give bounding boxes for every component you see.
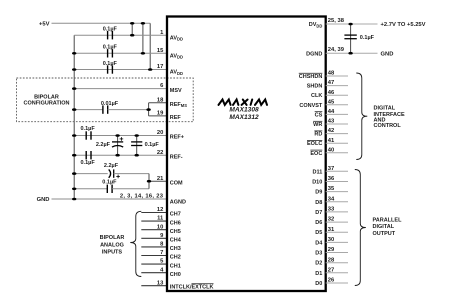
capacitor C10 0.1uF [107, 185, 112, 193]
wire WR stub [326, 123, 348, 125]
svg-text:D5: D5 [315, 230, 322, 236]
svg-text:D10: D10 [312, 180, 322, 186]
wire CH0 input line [141, 272, 167, 274]
svg-text:20: 20 [157, 130, 163, 136]
svg-text:EOLC: EOLC [307, 141, 322, 147]
junction bus AGND line [72, 198, 76, 201]
svg-text:12: 12 [157, 207, 163, 213]
svg-text:GND: GND [37, 197, 50, 203]
wire CH2 input line [141, 255, 167, 257]
svg-text:MAX1312: MAX1312 [229, 114, 259, 121]
wire CH4 input line [141, 237, 167, 239]
svg-text:EOC: EOC [310, 151, 322, 157]
wire REF- pin22 line [74, 154, 167, 156]
svg-text:2, 3, 14, 16, 23: 2, 3, 14, 16, 23 [120, 194, 164, 200]
IC U1 MAX1308/MAX1312 ADC body [167, 17, 326, 292]
svg-text:D0: D0 [315, 281, 322, 287]
svg-text:D3: D3 [315, 251, 322, 257]
junction bus 0.01uF line [72, 108, 76, 111]
wire REF pin19 stub [149, 115, 167, 117]
junction bus AVDD15 line [72, 52, 76, 55]
capacitor C9 2.2uF (polarized) [109, 169, 114, 177]
svg-text:CS: CS [315, 112, 323, 118]
junction drop2 AVDD15 line [141, 52, 145, 55]
svg-text:ANALOG: ANALOG [100, 242, 124, 248]
junction bus AVDD17 line [72, 68, 76, 71]
svg-text:0.1µF: 0.1µF [81, 126, 96, 132]
svg-text:11: 11 [157, 216, 164, 222]
svg-text:D6: D6 [315, 220, 322, 226]
svg-text:CH2: CH2 [170, 255, 181, 261]
wire left analog ground bus [73, 35, 75, 199]
wire COM branch tie [148, 174, 150, 189]
wire C7 branch [117, 136, 119, 156]
wire INTCLK/EXTCLK pin13 line [141, 285, 167, 287]
wire CH3 input line [141, 246, 167, 248]
svg-text:0.1µF: 0.1µF [103, 61, 118, 67]
wire CHSHDN stub [326, 75, 348, 77]
wire D2 stub [326, 262, 348, 264]
junction C8 REF- line [135, 154, 139, 157]
svg-text:PARALLEL: PARALLEL [373, 217, 403, 223]
svg-text:18: 18 [157, 97, 164, 103]
bipolar configuration dashed box [17, 78, 194, 122]
svg-text:MAX1308: MAX1308 [229, 106, 259, 113]
svg-text:CONVST: CONVST [299, 103, 323, 109]
wire AGND line [52, 198, 168, 200]
wire CLK stub [326, 94, 348, 96]
svg-text:D11: D11 [313, 169, 323, 175]
wire COM pin21 stub [149, 180, 167, 182]
wire CS stub [326, 113, 348, 115]
svg-text:19: 19 [157, 111, 164, 117]
wire CH6 input line [141, 220, 167, 222]
wire EOLC stub [326, 142, 348, 144]
svg-text:DIGITAL: DIGITAL [374, 106, 396, 112]
wire AVDD pin15 line [74, 52, 167, 54]
svg-text:0.1µF: 0.1µF [145, 142, 160, 148]
svg-text:7: 7 [160, 250, 163, 256]
svg-text:0.1µF: 0.1µF [102, 179, 117, 185]
svg-text:COM: COM [170, 180, 183, 186]
svg-text:+5V: +5V [39, 21, 50, 27]
wire AVDD pin1 line [74, 34, 167, 36]
svg-text:REFMS: REFMS [170, 102, 187, 108]
wire COM 0.1uF branch left [74, 188, 107, 190]
wire D4 stub [326, 241, 348, 243]
svg-text:0.1µF: 0.1µF [360, 35, 375, 41]
junction C8 REF+ line [135, 134, 139, 137]
wire C8 branch [136, 136, 138, 156]
wire +5V drop to AVDD pin 15 [142, 23, 144, 53]
wire D10 stub [326, 181, 348, 183]
junction bus MSV line [72, 87, 76, 90]
wire D11 stub [326, 170, 348, 172]
wire 0.01uF line left [74, 109, 103, 111]
junction C7 REF+ line [115, 134, 119, 137]
capacitor C6 0.1uF [86, 151, 91, 159]
svg-text:AVDD: AVDD [170, 35, 183, 41]
svg-text:OUTPUT: OUTPUT [373, 231, 396, 237]
svg-text:CH6: CH6 [170, 220, 181, 226]
svg-text:RD: RD [314, 132, 322, 138]
wire D9 stub [326, 191, 348, 193]
capacitor C7 2.2uF (polarized) [112, 142, 123, 147]
svg-text:D7: D7 [315, 210, 322, 216]
svg-text:D9: D9 [315, 190, 322, 196]
svg-text:D1: D1 [315, 271, 322, 277]
wire D6 stub [326, 221, 348, 223]
svg-text:+2.7V TO +5.25V: +2.7V TO +5.25V [381, 22, 426, 28]
wire D8 stub [326, 201, 348, 203]
svg-text:WR: WR [313, 122, 322, 128]
wire RD stub [326, 133, 348, 135]
junction +5V rail drop2 [141, 22, 145, 25]
wire AVDD pin17 line [74, 69, 167, 71]
svg-text:15: 15 [157, 48, 164, 54]
wire REFMS pin18 stub [149, 102, 167, 104]
junction +5V rail drop1 [130, 22, 134, 25]
svg-text:CH4: CH4 [170, 238, 182, 244]
svg-text:DVDD: DVDD [309, 22, 323, 28]
junction bus REF+ line [72, 134, 76, 137]
svg-text:13: 13 [157, 280, 164, 286]
junction drop1 AVDD1 line [130, 34, 134, 37]
svg-text:CONTROL: CONTROL [374, 123, 402, 129]
svg-text:CH5: CH5 [170, 229, 181, 235]
svg-text:10: 10 [157, 224, 163, 230]
svg-text:SHDN: SHDN [307, 84, 323, 90]
junction tie 0.01uF line [146, 108, 150, 111]
svg-text:GND: GND [381, 51, 394, 57]
brace digital interface and control [356, 73, 367, 160]
wire D1 stub [326, 272, 348, 274]
capacitor C4 0.01uF [103, 105, 108, 113]
svg-text:REF: REF [170, 115, 182, 121]
MAXIM logo [219, 100, 268, 105]
svg-text:REF+: REF+ [170, 135, 184, 141]
wire EOC stub [326, 152, 348, 154]
svg-text:INTCLK/EXTCLK: INTCLK/EXTCLK [170, 284, 214, 290]
svg-text:INPUTS: INPUTS [102, 250, 123, 256]
wire SHDN stub [326, 85, 348, 87]
svg-text:DIGITAL: DIGITAL [373, 224, 395, 230]
svg-text:0.01µF: 0.01µF [101, 101, 119, 107]
svg-text:24, 39: 24, 39 [328, 47, 345, 53]
svg-text:BIPOLAR: BIPOLAR [100, 235, 125, 241]
svg-text:MSV: MSV [170, 88, 182, 94]
wire +5V drop to AVDD pin 1 [131, 23, 133, 35]
svg-text:22: 22 [157, 150, 163, 156]
wire CONVST stub [326, 104, 348, 106]
wire +5V drop to AVDD pin 17 [149, 23, 151, 69]
svg-text:CLK: CLK [311, 93, 322, 99]
svg-text:CH0: CH0 [170, 272, 181, 278]
capacitor C5 0.1uF [86, 131, 91, 139]
svg-text:AVDD: AVDD [170, 70, 183, 76]
brace parallel digital output [355, 170, 366, 286]
svg-text:2.2µF: 2.2µF [96, 142, 111, 148]
junction DGND line C11 [348, 52, 352, 55]
brace bipolar analog inputs [130, 211, 141, 276]
wire REFMS-REF tie [148, 103, 150, 116]
svg-text:17: 17 [157, 64, 163, 70]
svg-text:25, 38: 25, 38 [328, 18, 345, 24]
wire CH1 input line [141, 263, 167, 265]
wire +5V rail [52, 22, 151, 24]
svg-text:0.1µF: 0.1µF [81, 160, 96, 166]
wire MSV pin6 line [74, 88, 167, 90]
svg-text:REF-: REF- [170, 154, 183, 160]
capacitor C1 0.1uF [108, 31, 113, 39]
svg-text:DGND: DGND [306, 51, 322, 57]
svg-text:0.1µF: 0.1µF [103, 45, 118, 51]
svg-text:D2: D2 [315, 261, 322, 267]
junction COM tie stub [147, 180, 151, 183]
wire CH7 input line [141, 212, 167, 214]
svg-text:AGND: AGND [170, 199, 186, 205]
wire C11 branch [350, 24, 352, 53]
wire D5 stub [326, 231, 348, 233]
capacitor C8 0.1uF [131, 142, 142, 146]
junction C7 REF- line [115, 154, 119, 157]
wire CH5 input line [141, 229, 167, 231]
junction bus C10 branch [72, 188, 76, 191]
svg-text:21: 21 [157, 176, 164, 182]
capacitor C3 0.1uF [108, 65, 113, 73]
svg-text:2.2µF: 2.2µF [104, 163, 119, 169]
svg-text:CONFIGURATION: CONFIGURATION [23, 100, 69, 106]
svg-text:0.1µF: 0.1µF [103, 27, 118, 33]
wire D7 stub [326, 211, 348, 213]
wire COM 0.1uF branch right [112, 188, 149, 190]
svg-text:CH7: CH7 [170, 212, 181, 218]
capacitor C11 0.1uF [344, 35, 356, 39]
wire COM 2.2uF branch left [74, 173, 108, 175]
junction DVDD line C11 [348, 23, 352, 26]
svg-text:D4: D4 [315, 240, 323, 246]
wire DVDD supply line [326, 23, 378, 25]
wire REF+ pin20 line [74, 135, 167, 137]
svg-text:D8: D8 [315, 200, 322, 206]
junction bus REF- line [72, 154, 76, 157]
svg-text:CH3: CH3 [170, 246, 181, 252]
junction drop3 AVDD17 line [148, 68, 152, 71]
wire D0 stub [326, 282, 348, 284]
wire D3 stub [326, 252, 348, 254]
svg-text:CHSHDN: CHSHDN [299, 74, 323, 80]
junction bus C9 branch [72, 172, 76, 175]
wire COM 2.2uF branch right [114, 173, 149, 175]
capacitor C2 0.1uF [108, 49, 113, 57]
wire 0.01uF line right [108, 109, 149, 111]
svg-text:AVDD: AVDD [170, 54, 183, 60]
svg-text:CH1: CH1 [170, 263, 181, 269]
wire DGND line [326, 52, 378, 54]
